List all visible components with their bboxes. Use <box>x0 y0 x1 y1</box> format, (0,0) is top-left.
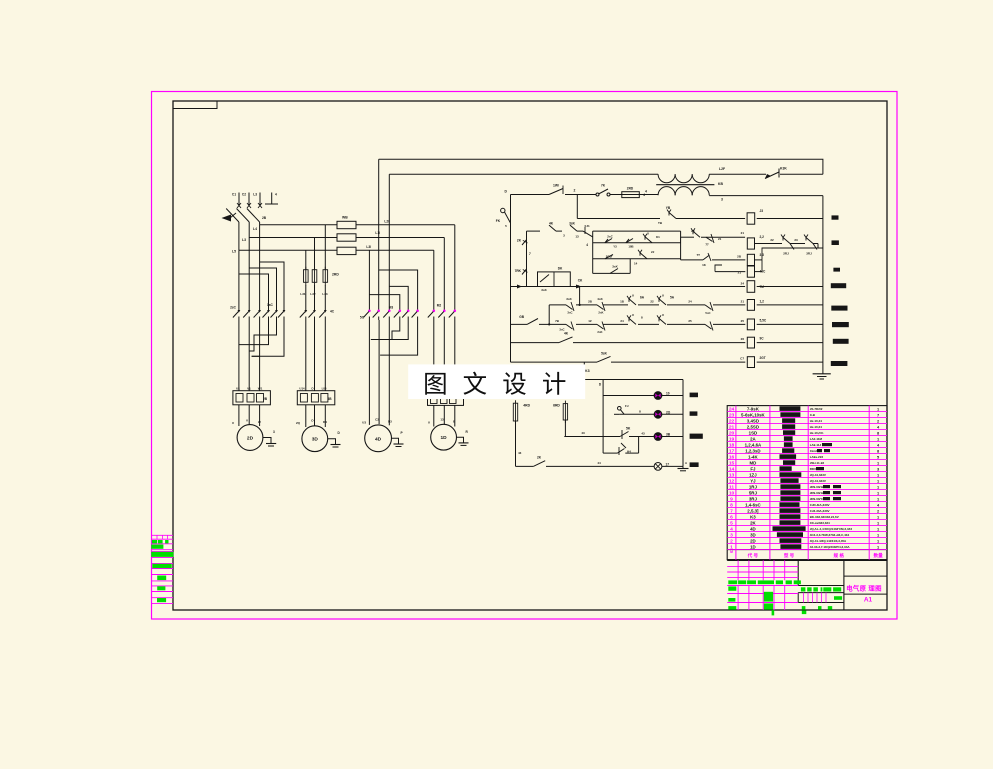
control ladder ground <box>813 373 831 375</box>
thermal overload relay 1RJ branch1 <box>233 391 271 405</box>
transformer TC primary winding <box>658 174 675 183</box>
contact 4K rung2 <box>549 225 556 231</box>
rung1 vertical drop from node 2 <box>576 195 578 219</box>
relay coil 6sC <box>747 319 754 330</box>
svg-text:3D: 3D <box>312 437 319 443</box>
contact 6A rung4 <box>629 299 636 305</box>
selector switch DK box <box>538 272 571 287</box>
svg-text:3RJ: 3RJ <box>749 496 758 501</box>
title block middle green dashes row1 <box>801 587 806 591</box>
svg-text:M3: M3 <box>389 306 394 310</box>
svg-text:26: 26 <box>741 337 745 341</box>
svg-text:L3: L3 <box>253 193 257 197</box>
svg-text:L32: L32 <box>310 292 316 296</box>
supply terminal L1 stub <box>238 193 240 206</box>
lamp circuit left vertical <box>602 380 604 454</box>
svg-text:C3: C3 <box>375 418 379 422</box>
svg-text:KB: KB <box>718 182 723 186</box>
svg-text:1,2,4,6A: 1,2,4,6A <box>745 442 762 447</box>
svg-text:2Q: 2Q <box>666 411 671 415</box>
svg-text:L3: L3 <box>242 238 246 242</box>
svg-text:2K: 2K <box>537 456 542 460</box>
svg-text:K3: K3 <box>585 369 590 373</box>
svg-text:L5: L5 <box>232 250 236 254</box>
svg-text:JS-7D2/2: JS-7D2/2 <box>810 407 823 411</box>
contactor M3 contacts branch3 <box>399 306 401 310</box>
svg-text:YJ: YJ <box>750 478 756 483</box>
svg-text:V: V <box>246 419 248 423</box>
svg-text:24: 24 <box>620 319 624 323</box>
svg-text:规 格: 规 格 <box>833 552 844 559</box>
fuse 2RD control <box>622 192 640 198</box>
svg-text:7K: 7K <box>601 184 606 188</box>
svg-text:8: 8 <box>730 503 733 509</box>
svg-text:19: 19 <box>729 437 735 443</box>
contact YB on rung1 <box>669 213 676 219</box>
wire mark dash 4 <box>831 283 846 288</box>
svg-text:13: 13 <box>575 235 579 239</box>
svg-text:21: 21 <box>718 237 722 241</box>
indicator lamp HL2 <box>654 410 662 418</box>
svg-text:W: W <box>258 420 261 424</box>
motor M4 earth <box>457 437 464 443</box>
lamp circuit earth <box>682 466 684 468</box>
switch output verticals <box>238 222 240 250</box>
wire mark dash 8 <box>831 361 848 366</box>
motor M1 earth <box>263 438 271 444</box>
svg-text:10: 10 <box>666 392 670 396</box>
svg-text:M2: M2 <box>437 304 442 308</box>
svg-text:4: 4 <box>645 190 647 194</box>
changeover contact 5K row3 <box>620 432 629 437</box>
svg-text:43: 43 <box>518 451 522 455</box>
svg-text:9C: 9C <box>760 337 765 341</box>
svg-text:JQ-44,333V: JQ-44,333V <box>810 479 826 483</box>
svg-text:V1: V1 <box>247 386 251 390</box>
junction verticals rung3-rung4 <box>548 305 550 325</box>
relay coil 9C <box>747 337 754 348</box>
svg-text:25: 25 <box>741 319 745 323</box>
contact 7T rung2coil <box>693 231 700 237</box>
supply terminal L3 stub <box>259 193 261 206</box>
svg-text:L2F: L2F <box>719 167 725 171</box>
svg-text:4D: 4D <box>750 526 756 531</box>
svg-text:2RD: 2RD <box>332 273 339 277</box>
thermal overload relay 2RJ branch4 <box>428 396 464 406</box>
rung5 wire <box>511 323 528 325</box>
left strip horizontals <box>152 534 174 536</box>
svg-text:1-4K: 1-4K <box>748 454 758 459</box>
contactor 1sC contacts branch1 <box>268 306 270 310</box>
left strip green bar 1 <box>151 545 163 549</box>
svg-text:4C: 4C <box>330 310 335 314</box>
svg-text:77: 77 <box>705 243 709 247</box>
relay coil 7M <box>747 281 755 293</box>
lamp circuit top rail <box>584 379 683 381</box>
svg-text:U: U <box>662 294 664 298</box>
fuse 6RD <box>563 404 567 420</box>
transformer TC secondary winding <box>658 187 675 196</box>
svg-text:6: 6 <box>730 515 733 521</box>
svg-text:3: 3 <box>730 533 733 539</box>
svg-text:3: 3 <box>721 198 723 202</box>
svg-text:2RD: 2RD <box>627 186 634 190</box>
bus line L1 horizontal <box>260 224 337 226</box>
bus line L2 horizontal <box>249 237 337 239</box>
svg-text:L2I: L2I <box>384 220 389 224</box>
svg-text:13: 13 <box>729 473 735 479</box>
contact H4 <box>618 449 625 454</box>
svg-text:W1: W1 <box>258 386 263 390</box>
svg-text:2K: 2K <box>517 239 522 243</box>
motor M2 3D <box>302 426 328 452</box>
svg-text:3sC: 3sC <box>567 311 572 315</box>
svg-text:21: 21 <box>741 300 745 304</box>
svg-text:Y3: Y3 <box>613 245 617 249</box>
left strip green bar 3 <box>152 564 171 568</box>
contact rung5 second Y <box>659 318 666 324</box>
svg-text:6A: 6A <box>640 296 645 300</box>
svg-text:JR9-03/12: JR9-03/12 <box>810 491 824 495</box>
title block left grid horizontals magenta <box>727 566 798 568</box>
svg-text:Hz-10,/Ch: Hz-10,/Ch <box>810 431 824 435</box>
title block left grid verticals lower <box>737 586 739 611</box>
cluster rung A wire <box>593 242 681 244</box>
branch2 drops from bus to fuses <box>305 250 307 270</box>
relay coil 4sC <box>747 266 754 277</box>
wire 4RD down to 2K switch <box>515 421 517 466</box>
svg-text:C4: C4 <box>311 419 315 423</box>
wire coil 2sC to NC contacts <box>755 243 783 245</box>
svg-text:4Q-41-4/3Q,14Z34/3,3,45A: 4Q-41-4/3Q,14Z34/3,3,45A <box>810 539 847 543</box>
svg-text:U14: U14 <box>299 386 305 390</box>
wires thermal to motor M2 <box>305 405 307 427</box>
svg-text:2GJ/: 2GJ/ <box>606 255 613 259</box>
svg-text:7-9sK: 7-9sK <box>747 406 760 411</box>
svg-text:5-6sK,10sK: 5-6sK,10sK <box>741 412 766 417</box>
lamp row4 H4 wire <box>603 452 617 454</box>
title block signature green bars row <box>728 580 737 584</box>
svg-text:1sC: 1sC <box>267 303 274 307</box>
svg-text:2sC: 2sC <box>607 235 613 239</box>
NC contact 4sK rung4 <box>597 305 604 310</box>
svg-text:10: 10 <box>729 491 735 497</box>
svg-text:A1: A1 <box>864 596 873 603</box>
motor M3 earth <box>392 438 399 444</box>
svg-text:WB: WB <box>342 215 348 219</box>
svg-text:L31: L31 <box>300 292 306 296</box>
svg-text:2B: 2B <box>262 216 267 220</box>
svg-text:U: U <box>632 294 634 298</box>
svg-text:22: 22 <box>650 300 654 304</box>
lamp wire mark dash 4 <box>690 462 699 467</box>
wire mark dash 3 <box>833 268 840 272</box>
svg-text:1SD: 1SD <box>749 430 758 435</box>
lamp row3 wire <box>564 436 620 438</box>
branch1 second contactor feeders <box>260 262 284 306</box>
svg-text:L1I: L1I <box>375 231 380 235</box>
svg-text:7: 7 <box>877 412 879 417</box>
svg-text:C7: C7 <box>740 357 744 361</box>
left strip top cell dividers <box>156 535 158 539</box>
svg-text:1RJ: 1RJ <box>749 484 758 489</box>
svg-text:2D: 2D <box>750 538 756 543</box>
svg-text:4sK: 4sK <box>597 297 603 301</box>
svg-text:23: 23 <box>794 238 798 242</box>
contact K1 rungA <box>645 237 652 243</box>
rung4 wire <box>549 304 566 306</box>
svg-text:3B: 3B <box>327 397 332 401</box>
svg-text:3B: 3B <box>666 433 671 437</box>
bus fuse box WB L2 <box>337 234 356 241</box>
svg-text:14: 14 <box>634 262 638 266</box>
svg-text:18B: 18B <box>628 245 633 249</box>
lamp row2 wire <box>620 413 654 415</box>
parts table row lines <box>727 411 887 413</box>
svg-text:L33: L33 <box>322 292 328 296</box>
svg-text:YJ1: YJ1 <box>584 224 590 228</box>
NC contact rung5 before coil <box>705 324 712 329</box>
title block top black line <box>727 559 887 561</box>
lamp row5 wire with switch 2K <box>516 465 534 467</box>
svg-text:FJ: FJ <box>750 466 756 471</box>
contactor 5sC contacts branch3 <box>368 306 370 310</box>
svg-text:4: 4 <box>586 243 588 247</box>
wire mark dash 2 <box>832 240 839 245</box>
svg-text:C2: C2 <box>242 193 246 197</box>
contact GB rung5 <box>527 319 538 325</box>
motor M4 1D <box>431 424 457 450</box>
wires thermal to motor M1 <box>238 405 240 426</box>
svg-text:3: 3 <box>273 430 275 434</box>
svg-text:1,4-6sC: 1,4-6sC <box>745 502 761 507</box>
svg-text:型 号: 型 号 <box>784 552 795 559</box>
svg-text:K3: K3 <box>750 514 756 519</box>
svg-text:2sK: 2sK <box>597 330 602 334</box>
svg-text:7T: 7T <box>696 253 700 257</box>
feeder wire second line to transformer primary <box>389 173 658 175</box>
svg-text:15: 15 <box>729 461 735 467</box>
contact 2GJ rungB <box>605 255 613 259</box>
title block middle green dashes row2 <box>802 606 806 610</box>
PE earth terminal <box>271 193 273 205</box>
svg-text:25: 25 <box>688 319 692 323</box>
svg-text:4RD: 4RD <box>523 404 530 408</box>
left strip green dash row <box>152 540 157 543</box>
fuse 2RD b <box>312 270 317 283</box>
switch 1W blade <box>549 189 563 195</box>
svg-text:C1: C1 <box>232 193 236 197</box>
contact 18B rungA <box>626 239 633 243</box>
svg-text:D3: D3 <box>388 420 392 424</box>
svg-text:24: 24 <box>741 282 745 286</box>
motor M2 earth <box>328 439 336 445</box>
svg-text:图 文 设 计: 图 文 设 计 <box>423 371 571 399</box>
svg-text:3D: 3D <box>750 532 756 537</box>
rung7 wire <box>511 361 598 363</box>
branch3 reversing cross wires <box>368 320 370 425</box>
svg-text:CJD-/EA,333V: CJD-/EA,333V <box>810 503 830 507</box>
rung6 wire <box>511 342 560 344</box>
svg-text:5RJ: 5RJ <box>749 490 758 495</box>
relay coil 2sC <box>747 238 754 249</box>
svg-text:22: 22 <box>770 238 774 242</box>
fuse 2RD a <box>304 270 309 283</box>
svg-text:1W/: 1W/ <box>553 184 559 188</box>
svg-text:U: U <box>632 313 634 317</box>
svg-text:3,4SD: 3,4SD <box>747 418 759 423</box>
svg-text:U: U <box>232 421 234 425</box>
svg-text:43: 43 <box>581 431 585 435</box>
switch 7K with pivot circles <box>596 193 599 196</box>
svg-text:L3I: L3I <box>366 245 371 249</box>
svg-text:16: 16 <box>729 455 735 461</box>
parts table outer border <box>727 406 887 560</box>
svg-text:CJ3-33A,333V: CJ3-33A,333V <box>810 509 830 513</box>
svg-text:7: 7 <box>730 509 733 515</box>
svg-text:12: 12 <box>729 479 735 485</box>
svg-text:K1: K1 <box>656 235 660 239</box>
indicator lamp HL4 <box>654 463 662 471</box>
svg-text:2RJ: 2RJ <box>783 252 789 256</box>
wire K3K section <box>709 173 766 175</box>
switch operating arrow <box>222 215 232 222</box>
left strip green bar 2 full width <box>151 552 173 557</box>
lamp circuit right rail <box>682 380 684 467</box>
control feed row wire <box>511 194 550 196</box>
contact NC 77 before coil2sC <box>706 237 713 241</box>
svg-text:24: 24 <box>729 407 735 413</box>
svg-text:4: 4 <box>275 193 277 197</box>
svg-text:18: 18 <box>729 443 735 449</box>
svg-text:21: 21 <box>741 231 745 235</box>
wire coil 3,3 to rail <box>755 259 763 261</box>
outer magenta sheet frame <box>152 92 898 620</box>
svg-text:7RK: 7RK <box>515 269 522 273</box>
svg-text:K3K: K3K <box>780 167 787 171</box>
NC contact 1Z rung5 <box>597 324 604 329</box>
svg-text:1Z: 1Z <box>588 319 592 323</box>
rung2 wire <box>527 230 541 232</box>
svg-text:2,5SD: 2,5SD <box>747 424 759 429</box>
lamp row1 wire <box>603 395 654 397</box>
contact YJ1 rung2 <box>583 231 593 237</box>
svg-text:2GT: 2GT <box>760 356 766 360</box>
svg-text:9: 9 <box>730 497 733 503</box>
svg-text:YB: YB <box>666 206 671 210</box>
svg-text:Hz-10,44: Hz-10,44 <box>810 419 823 423</box>
title block green cell b <box>728 598 735 602</box>
svg-text:5A: 5A <box>670 296 675 300</box>
relay coil 3,3 <box>747 254 754 265</box>
svg-text:3RJ: 3RJ <box>806 252 812 256</box>
svg-text:XX-ca/333,334: XX-ca/333,334 <box>810 521 830 525</box>
cluster left vertical <box>592 231 594 273</box>
motor M3 4D <box>365 425 392 452</box>
relay coil J5 <box>747 213 755 224</box>
contactor M2 contacts branch4 <box>433 306 435 310</box>
contact 3sK rungC <box>610 269 618 274</box>
svg-text:5sC: 5sC <box>705 311 710 315</box>
left strip green bar 4 <box>157 576 166 581</box>
svg-text:5C: 5C <box>360 316 365 320</box>
bus line L3 horizontal <box>239 249 337 251</box>
cluster rung C wire <box>593 272 631 274</box>
branch4 wires to thermal <box>433 320 435 396</box>
indicator lamp HL3 <box>654 433 662 441</box>
fuse 4RD <box>513 403 517 421</box>
svg-text:4K: 4K <box>549 222 554 226</box>
title block green cell c <box>728 606 736 610</box>
svg-text:4D: 4D <box>375 436 382 442</box>
svg-text:C4: C4 <box>311 386 315 390</box>
fuse cross mark phase B <box>247 203 251 208</box>
title block left grid verticals upper <box>737 560 739 580</box>
left strip green bar 6 <box>157 598 166 602</box>
branch4 drops from bus <box>454 225 456 306</box>
title block green cell a <box>728 586 736 590</box>
title tab rectangle top-left <box>173 101 217 109</box>
branch1 phase drops from bus <box>238 250 240 306</box>
title block green column cells <box>764 592 773 602</box>
wire to coils 3,3 and 4sC <box>681 259 703 261</box>
contact K3K blade <box>765 172 779 179</box>
thermal overload relay 3RJ branch2 <box>297 391 335 405</box>
contact 2J rungB <box>640 253 647 259</box>
parts table header band black lines <box>727 549 887 551</box>
svg-text:电气原 理图: 电气原 理图 <box>846 584 882 593</box>
svg-text:CK: CK <box>578 279 583 283</box>
wire mark dash 7 <box>833 339 849 344</box>
svg-text:M: M <box>730 550 733 554</box>
svg-text:X-B: X-B <box>810 413 816 417</box>
right rail of control ladder <box>822 196 824 374</box>
svg-text:JQ-44,333V: JQ-44,333V <box>810 473 826 477</box>
motor M1 2D <box>237 425 263 451</box>
contact 5A rung4 <box>659 299 666 305</box>
green mark below frame b <box>772 610 775 615</box>
lamp wire mark dash 2 <box>690 411 698 415</box>
svg-text:43: 43 <box>641 432 645 436</box>
pushbutton FK on left rail <box>501 208 505 212</box>
svg-text:20: 20 <box>729 431 735 437</box>
feeder wire top line from bus to right rail <box>379 159 823 174</box>
lamp wire mark dash 3 <box>690 434 703 439</box>
parts table column lines <box>735 406 737 560</box>
svg-text:4K: 4K <box>564 332 569 336</box>
svg-text:FK: FK <box>496 219 501 223</box>
svg-text:44: 44 <box>597 461 601 465</box>
fuse cross mark phase C <box>258 203 262 208</box>
svg-text:代 号: 代 号 <box>747 552 759 559</box>
relay coil 2GT <box>747 357 754 368</box>
svg-text:2B: 2B <box>263 397 268 401</box>
left strip green bar 5 <box>157 586 165 590</box>
svg-text:14: 14 <box>729 467 735 473</box>
svg-text:U: U <box>428 421 430 425</box>
wire 6RD down to lamp row3 <box>564 420 566 437</box>
svg-text:23: 23 <box>729 413 735 419</box>
svg-text:3sK: 3sK <box>569 222 576 226</box>
wire cluster to coil 2sC <box>681 236 694 238</box>
svg-text:L04: L04 <box>322 386 327 390</box>
svg-text:2J: 2J <box>651 250 655 254</box>
svg-text:1D: 1D <box>750 544 756 549</box>
branch2 wires fuses to contacts <box>305 285 307 306</box>
svg-text:2,2: 2,2 <box>760 235 765 239</box>
svg-text:1ZJ: 1ZJ <box>749 472 757 477</box>
svg-text:JQ,AL-4,4.5KQ/1433Y/M,3,4Z3: JQ,AL-4,4.5KQ/1433Y/M,3,4Z3 <box>810 527 853 531</box>
